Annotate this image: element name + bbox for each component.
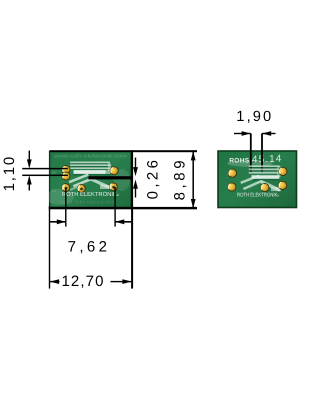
svg-text:45.14: 45.14 <box>252 154 283 166</box>
svg-text:0,26: 0,26 <box>144 157 161 200</box>
svg-text:1,90: 1,90 <box>236 109 273 125</box>
svg-text:12,70: 12,70 <box>61 273 104 290</box>
svg-text:8,89: 8,89 <box>172 157 189 201</box>
svg-text:ROTH ELEKTRONIK®: ROTH ELEKTRONIK® <box>237 193 280 199</box>
svg-text:ROHS: ROHS <box>229 157 249 164</box>
svg-text:WU SN 0603 R2: WU SN 0603 R2 <box>60 200 116 205</box>
svg-text:ND: ND <box>101 183 107 188</box>
svg-text:ROTH ELEKTRONIK®: ROTH ELEKTRONIK® <box>62 191 120 198</box>
svg-text:www.roth-elektronik.com: www.roth-elektronik.com <box>54 153 127 159</box>
svg-text:1,10: 1,10 <box>1 155 18 191</box>
svg-text:B1: B1 <box>52 188 58 193</box>
svg-text:7,62: 7,62 <box>68 238 111 255</box>
svg-text:A0: A0 <box>52 170 58 175</box>
